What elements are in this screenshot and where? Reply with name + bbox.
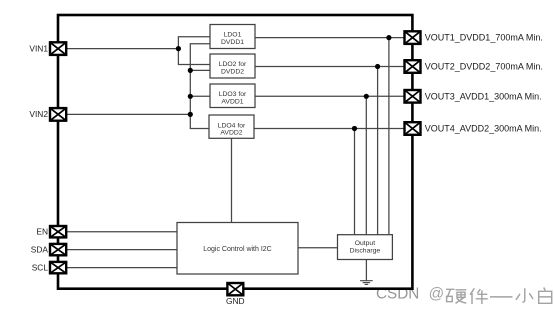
- node VIN2 junction: [188, 112, 193, 117]
- svg-text:Logic Control with I2C: Logic Control with I2C: [203, 246, 271, 253]
- wire LDO1 output to VOUT1: [255, 37, 405, 39]
- 一: [490, 296, 513, 298]
- svg-text:GND: GND: [226, 296, 245, 306]
- svg-text:Output: Output: [355, 240, 376, 247]
- 白: [539, 288, 552, 304]
- pin VOUT2: [405, 60, 421, 73]
- wire discharge drop from VOUT3: [365, 96, 367, 234]
- outer IC boundary box: [58, 15, 412, 289]
- wire bus to LDO3: [190, 95, 210, 97]
- 小: [516, 288, 533, 302]
- node VOUT1 discharge junction: [386, 35, 391, 40]
- wire SDA to logic: [66, 249, 177, 251]
- wire SCL to logic: [66, 267, 177, 269]
- wire LDO4 output to VOUT4: [254, 128, 405, 130]
- svg-text:AVDD1: AVDD1: [221, 98, 243, 105]
- svg-text:LDO1: LDO1: [224, 32, 242, 39]
- wire LDO4 to logic control: [231, 138, 233, 222]
- block LDO2: [210, 54, 255, 78]
- wire VIN2 to junction: [66, 113, 190, 115]
- svg-text:VOUT4_AVDD2_300mA Min.: VOUT4_AVDD2_300mA Min.: [425, 124, 542, 134]
- svg-text:EN: EN: [36, 227, 48, 237]
- svg-text:VIN1: VIN1: [29, 43, 48, 53]
- wire bus to LDO2 lower pin: [190, 69, 210, 71]
- block LDO3: [210, 84, 255, 108]
- svg-text:LDO3 for: LDO3 for: [219, 91, 247, 98]
- svg-text:AVDD2: AVDD2: [220, 130, 242, 137]
- watermark CSDN: [376, 286, 419, 303]
- svg-text:LDO4 for: LDO4 for: [218, 122, 246, 129]
- node VIN1 junction: [176, 46, 181, 51]
- svg-text:VOUT1_DVDD1_700mA Min.: VOUT1_DVDD1_700mA Min.: [425, 33, 543, 43]
- svg-text:Discharge: Discharge: [350, 248, 381, 255]
- node bus-LDO3 junction: [188, 94, 193, 99]
- watermark @硬件一小白 (drawn strokes): [429, 286, 552, 304]
- pin SCL: [50, 262, 66, 273]
- pin VOUT1: [405, 31, 421, 44]
- pin EN: [50, 226, 66, 237]
- 件: [470, 288, 488, 304]
- svg-text:VIN2: VIN2: [29, 109, 48, 119]
- svg-text:DVDD2: DVDD2: [221, 68, 244, 75]
- node VOUT2 discharge junction: [375, 64, 380, 69]
- wire logic to output discharge: [298, 247, 338, 249]
- wire LDO2 output to VOUT2: [255, 66, 405, 68]
- pin GND: [227, 283, 243, 295]
- wire discharge drop from VOUT4: [354, 129, 356, 235]
- node VOUT4 discharge junction: [352, 126, 357, 131]
- svg-text:VOUT3_AVDD1_300mA Min.: VOUT3_AVDD1_300mA Min.: [425, 91, 542, 101]
- wire output discharge to ground: [365, 260, 367, 281]
- svg-text:LDO2 for: LDO2 for: [219, 61, 247, 68]
- junction dots: [176, 35, 392, 131]
- wire vertical VIN1 bus: [178, 37, 210, 65]
- svg-text:@: @: [429, 286, 445, 303]
- block LDO1: [210, 25, 255, 49]
- block LDO4: [209, 115, 254, 138]
- block Logic Control with I2C: [177, 223, 298, 275]
- block Output Discharge: [338, 235, 393, 260]
- wire VIN1 to junction: [66, 48, 178, 50]
- 硬: [446, 289, 455, 301]
- pin VIN2: [50, 108, 66, 121]
- svg-text:SCL: SCL: [32, 262, 49, 272]
- wire discharge drop from VOUT2: [377, 67, 379, 235]
- wire LDO3 output to VOUT3: [255, 95, 405, 97]
- node bus-LDO2 junction: [188, 68, 193, 73]
- pin VIN1: [50, 42, 66, 55]
- ground symbol: [360, 281, 373, 285]
- wire discharge drop from VOUT1: [388, 38, 390, 235]
- pin VOUT4: [405, 122, 421, 135]
- svg-text:SDA: SDA: [31, 244, 49, 254]
- wire vertical VIN2 bus: [190, 44, 210, 129]
- wire EN to logic: [66, 231, 177, 233]
- svg-text:VOUT2_DVDD2_700mA Min.: VOUT2_DVDD2_700mA Min.: [425, 62, 543, 72]
- node VOUT3 discharge junction: [364, 94, 369, 99]
- svg-text:DVDD1: DVDD1: [221, 39, 244, 46]
- pin SDA: [50, 244, 66, 255]
- pin VOUT3: [405, 90, 421, 103]
